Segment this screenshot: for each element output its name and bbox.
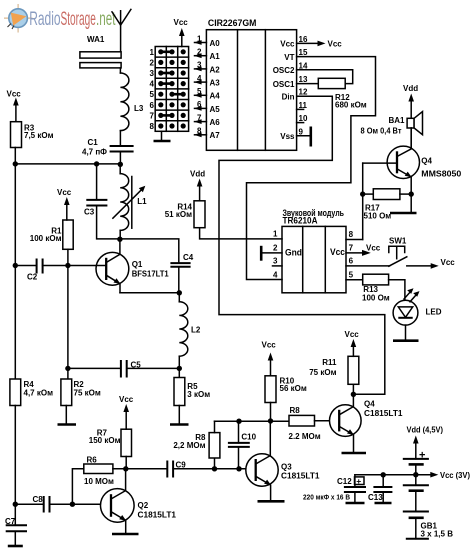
svg-text:100 кОм: 100 кОм [30,234,62,243]
svg-text:8: 8 [197,127,202,136]
svg-text:Gnd: Gnd [285,248,302,258]
svg-text:C3: C3 [84,207,95,216]
svg-text:TR6210A: TR6210A [283,216,318,226]
svg-text:11: 11 [299,101,308,110]
svg-text:16: 16 [299,35,308,44]
svg-text:Storage: Storage [61,9,96,30]
svg-text:8: 8 [150,122,155,131]
svg-text:3: 3 [273,257,278,266]
svg-text:150 кОм: 150 кОм [89,436,121,445]
svg-text:14: 14 [299,61,308,70]
svg-text:Vcc: Vcc [119,395,134,404]
svg-text:5: 5 [150,90,155,99]
svg-text:A0: A0 [210,39,221,48]
svg-text:A7: A7 [210,131,221,140]
svg-text:Vcc: Vcc [441,258,456,267]
svg-text:Vcc: Vcc [262,341,277,350]
svg-text:10: 10 [299,114,308,123]
svg-text:56 кОм: 56 кОм [280,384,307,393]
svg-text:Q1: Q1 [132,260,143,269]
svg-text:51 кОм: 51 кОм [165,210,192,219]
svg-text:3: 3 [150,69,155,78]
svg-text:5: 5 [197,87,202,96]
svg-text:L2: L2 [191,326,201,335]
svg-text:SW1: SW1 [389,237,407,246]
svg-text:100 Ом: 100 Ом [362,294,390,303]
svg-text:7: 7 [349,244,354,253]
svg-text:L3: L3 [134,104,144,113]
svg-text:Din: Din [282,93,295,102]
svg-text:Radio: Radio [29,9,60,30]
svg-text:OSC1: OSC1 [273,80,295,89]
svg-text:R13: R13 [363,285,378,294]
svg-text:7: 7 [150,111,155,120]
svg-text:9: 9 [299,127,304,136]
svg-text:75 кОм: 75 кОм [309,368,336,377]
svg-text:5: 5 [349,271,354,280]
svg-text:12: 12 [299,88,308,97]
svg-text:4: 4 [150,80,155,89]
svg-text:A1: A1 [210,52,221,61]
svg-text:Q4: Q4 [364,400,375,409]
svg-text:C4: C4 [183,253,194,262]
svg-text:C1: C1 [88,138,99,147]
svg-text:WA1: WA1 [87,35,105,44]
svg-text:CIR2267GM: CIR2267GM [208,18,257,29]
svg-text:6: 6 [150,101,155,110]
svg-text:2: 2 [197,48,202,57]
svg-text:4: 4 [273,270,278,279]
svg-text:A2: A2 [210,65,221,74]
svg-text:OSC2: OSC2 [273,66,295,75]
svg-text:C10: C10 [241,433,256,442]
svg-text:Vcc: Vcc [330,247,345,257]
svg-text:10 МОм: 10 МОм [84,477,114,486]
svg-text:Q2: Q2 [138,501,149,510]
svg-text:Vcc: Vcc [7,90,22,99]
svg-text:A3: A3 [210,79,221,88]
svg-text:3 кОм: 3 кОм [187,390,210,399]
svg-text:VT: VT [284,53,294,62]
svg-text:7,5 кОм: 7,5 кОм [24,131,54,140]
svg-text:13: 13 [299,75,308,84]
svg-text:2.2 МОм: 2.2 МОм [289,432,321,441]
svg-text:2: 2 [150,58,155,67]
svg-text:1: 1 [150,48,155,57]
svg-text:C12: C12 [337,477,352,486]
svg-text:Vss: Vss [280,132,295,141]
svg-text:Vdd: Vdd [403,84,418,93]
svg-text:15: 15 [299,48,308,57]
svg-text:3: 3 [197,61,202,70]
svg-text:R6: R6 [87,456,98,465]
svg-text:75 кОм: 75 кОм [74,389,101,398]
svg-text:A5: A5 [210,105,221,114]
svg-text:3 x 1,5 В: 3 x 1,5 В [421,530,454,539]
svg-text:Vcc: Vcc [174,18,189,27]
svg-text:220 мкФ x 16 В: 220 мкФ x 16 В [303,492,351,501]
svg-text:Vdd (4,5V): Vdd (4,5V) [407,426,444,435]
svg-text:4,7 кОм: 4,7 кОм [24,389,54,398]
svg-text:Q4: Q4 [421,156,432,165]
svg-text:7: 7 [197,113,202,122]
svg-text:2,2 МОм: 2,2 МОм [173,441,205,450]
svg-text:4: 4 [197,74,202,83]
svg-text:LED: LED [426,308,442,317]
svg-text:C1815LT1: C1815LT1 [364,409,403,418]
svg-text:Vdd: Vdd [190,170,205,179]
svg-text:Vcc: Vcc [280,40,295,49]
svg-text:680 кОм: 680 кОм [335,100,367,109]
svg-text:R8: R8 [290,406,301,415]
svg-text:C7: C7 [5,517,16,526]
svg-text:8 Ом 0,4 Вт: 8 Ом 0,4 Вт [361,126,402,135]
svg-text:Vcc: Vcc [57,188,72,197]
svg-text:Vcc: Vcc [366,244,381,253]
svg-text:MMS8050: MMS8050 [421,170,462,179]
svg-text:1: 1 [197,34,202,43]
svg-text:Vcc: Vcc [345,330,360,339]
svg-text:2: 2 [273,244,278,253]
svg-text:510 Ом: 510 Ом [364,212,392,221]
svg-text:1: 1 [273,230,278,239]
svg-text:C13: C13 [368,493,383,502]
svg-text:A6: A6 [210,118,221,127]
svg-text:Vcc (3V): Vcc (3V) [440,471,470,480]
svg-text:Vcc: Vcc [328,40,343,49]
svg-text:C2: C2 [27,273,38,282]
svg-text:C1815LT1: C1815LT1 [281,471,320,480]
svg-text:+: + [356,476,361,486]
svg-text:BA1: BA1 [389,116,406,125]
svg-text:4,7 пФ: 4,7 пФ [82,147,107,156]
svg-text:6: 6 [197,100,202,109]
svg-text:BFS17LT1: BFS17LT1 [132,270,170,279]
svg-text:8: 8 [349,230,354,239]
svg-text:6: 6 [349,257,354,266]
svg-text:R11: R11 [322,358,337,367]
svg-text:C8: C8 [33,495,44,504]
svg-text:L1: L1 [137,197,147,206]
svg-text:C1815LT1: C1815LT1 [138,510,177,519]
svg-text:A4: A4 [210,92,221,101]
